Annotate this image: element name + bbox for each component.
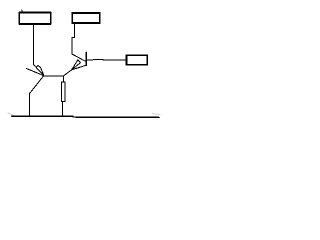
transistor Q2 body bar xyxy=(85,52,87,65)
wire (Q2 emitter diagonal: resistor node up to Q2 bar) xyxy=(64,65,87,76)
transistor Q2 (emitter arrow pointing down-left) xyxy=(72,60,81,70)
faint stray mark near ground rail right end xyxy=(153,114,161,115)
wire (Q1 base lead from upper-left) xyxy=(26,69,43,76)
wire (emitter vertical drop to ground) xyxy=(29,93,31,116)
wire (node A to resistor node) xyxy=(44,75,64,77)
resistor R1 (vertical) xyxy=(61,76,65,116)
tick mark on box B1 top edge xyxy=(21,10,23,12)
faint stray mark at ground rail left end xyxy=(8,113,13,116)
wire (B1 bottom to Q1 collector) xyxy=(32,24,34,64)
wire (Q2 base to box B3) xyxy=(86,58,126,61)
box B1 (top-left block) xyxy=(19,13,51,25)
ground (bottom rail) xyxy=(11,116,159,117)
wire (Q1 emitter diagonal down-left) xyxy=(30,76,44,93)
wire (B2 to Q2 collector: vertical, jog, diagonal) xyxy=(72,23,86,61)
transistor Q1 (arrow into junction node A) xyxy=(34,65,44,76)
box B3 (right block) xyxy=(126,55,147,64)
box B2 (top-middle block) xyxy=(72,13,100,23)
